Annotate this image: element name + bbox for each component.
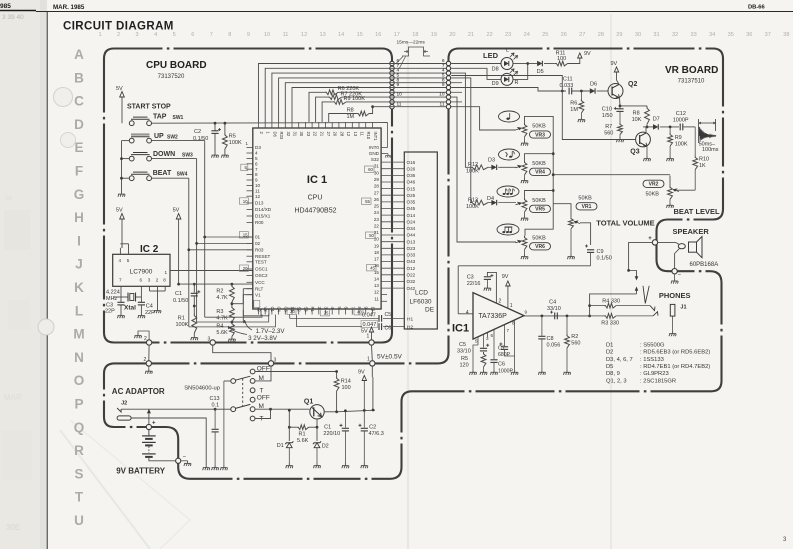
svg-text:D3: D3 bbox=[488, 158, 495, 164]
LCD LF6030 box bbox=[404, 152, 437, 329]
svg-text:28: 28 bbox=[339, 132, 344, 137]
wire R2-R3 junction to RLT pin bbox=[232, 303, 243, 305]
svg-text:45: 45 bbox=[370, 266, 375, 271]
svg-text:15: 15 bbox=[374, 270, 380, 275]
svg-text:5V: 5V bbox=[361, 329, 368, 335]
svg-text:BEAT: BEAT bbox=[153, 170, 172, 177]
resistor R9 100K bbox=[322, 102, 333, 122]
svg-text:50KB: 50KB bbox=[532, 161, 546, 167]
board interconnect rows 6 7 4 5 8 9 10 11 bbox=[395, 64, 446, 107]
svg-text:0.1/50: 0.1/50 bbox=[193, 136, 208, 142]
svg-text:VR6: VR6 bbox=[535, 244, 545, 250]
ground below pole 1 bbox=[220, 465, 227, 470]
ground below J1 bbox=[669, 331, 676, 336]
svg-text:0.1: 0.1 bbox=[212, 402, 220, 408]
svg-text:D8: D8 bbox=[492, 67, 499, 73]
ground at node 2 CPU side bbox=[138, 331, 149, 340]
svg-text:0.1/50: 0.1/50 bbox=[597, 256, 612, 262]
svg-text:100K: 100K bbox=[675, 141, 688, 147]
svg-text:: 2SC1815GR: : 2SC1815GR bbox=[640, 378, 676, 384]
wire VR1 wiper to C9 bbox=[580, 223, 591, 245]
svg-text:10: 10 bbox=[439, 92, 445, 98]
svg-text:O14: O14 bbox=[407, 213, 416, 218]
ground below R9 bbox=[667, 156, 674, 161]
svg-text:D1: D1 bbox=[277, 443, 284, 449]
svg-text:C1: C1 bbox=[270, 307, 275, 313]
audio bus chain verticals bbox=[525, 116, 554, 203]
IC1 left pin labels bbox=[255, 145, 272, 297]
ground below R1 bbox=[191, 335, 198, 340]
IC1 right pin 11 stub bbox=[381, 300, 387, 302]
svg-text:H1: H1 bbox=[407, 316, 413, 322]
svg-text:36: 36 bbox=[746, 32, 752, 38]
ground below VR1 bbox=[570, 229, 572, 254]
svg-text:1: 1 bbox=[165, 270, 168, 275]
svg-text:C4: C4 bbox=[549, 299, 556, 305]
capacitor C6 0.047 bbox=[361, 321, 378, 328]
svg-text:0.047: 0.047 bbox=[363, 322, 377, 328]
svg-text:13: 13 bbox=[374, 283, 380, 288]
svg-text:27: 27 bbox=[579, 32, 585, 38]
ground below R5 bbox=[221, 153, 228, 158]
svg-text:29: 29 bbox=[616, 32, 622, 38]
svg-text:D6: D6 bbox=[272, 132, 277, 138]
svg-text:100K: 100K bbox=[176, 322, 189, 328]
svg-text:100ms: 100ms bbox=[702, 147, 719, 153]
svg-text:V3: V3 bbox=[263, 307, 268, 313]
svg-text:21: 21 bbox=[319, 132, 324, 137]
svg-text:6: 6 bbox=[255, 161, 258, 166]
row 8 stub bbox=[451, 82, 462, 84]
svg-text:10: 10 bbox=[370, 307, 375, 312]
svg-text:5: 5 bbox=[127, 258, 130, 263]
svg-text:IC1: IC1 bbox=[452, 323, 469, 335]
ground below C3 bbox=[117, 313, 124, 318]
svg-text:10: 10 bbox=[243, 199, 248, 204]
svg-text:K: K bbox=[74, 280, 84, 295]
svg-text:O42: O42 bbox=[407, 286, 416, 291]
Q3 emitter to ground bbox=[646, 146, 648, 156]
burst waveform symbol 50ms-100ms bbox=[699, 122, 716, 124]
svg-text:O22: O22 bbox=[407, 273, 416, 278]
svg-text:21: 21 bbox=[468, 32, 474, 38]
svg-text:9V BATTERY: 9V BATTERY bbox=[116, 467, 166, 476]
ground below D1 bbox=[286, 463, 293, 468]
svg-text:J2: J2 bbox=[121, 401, 127, 407]
switch arm 1 bbox=[235, 376, 250, 380]
svg-text:47/6.3: 47/6.3 bbox=[369, 431, 384, 437]
svg-text:S3: S3 bbox=[303, 307, 308, 313]
VCC rail from 5V to IC1 bbox=[179, 283, 253, 285]
IC1 right pin 12 stub bbox=[381, 294, 387, 296]
paper crease right bbox=[610, 14, 612, 549]
svg-text:23: 23 bbox=[306, 132, 311, 137]
svg-text:V1: V1 bbox=[255, 292, 261, 297]
svg-text:R3: R3 bbox=[216, 309, 223, 315]
svg-text:9V: 9V bbox=[502, 274, 509, 280]
svg-text:27: 27 bbox=[326, 132, 331, 137]
svg-text:560: 560 bbox=[571, 341, 580, 347]
svg-text:60: 60 bbox=[368, 167, 373, 172]
svg-text:02: 02 bbox=[255, 241, 261, 246]
svg-text:11: 11 bbox=[283, 32, 289, 38]
svg-text:28: 28 bbox=[598, 32, 604, 38]
svg-text:31: 31 bbox=[293, 132, 298, 137]
IC1 bottom pin stubs and rotated labels bbox=[259, 309, 373, 315]
svg-text:12: 12 bbox=[301, 32, 307, 38]
svg-text:10: 10 bbox=[255, 183, 261, 188]
svg-text:S32: S32 bbox=[371, 157, 380, 162]
svg-text:C3: C3 bbox=[467, 275, 474, 281]
wire row 5 to R13 bbox=[451, 78, 472, 203]
svg-text:5V±0.5V: 5V±0.5V bbox=[377, 354, 403, 361]
speaker switch contact arms bbox=[629, 269, 637, 271]
svg-text:R7: R7 bbox=[605, 124, 612, 130]
ground below R6 vr bbox=[578, 117, 585, 122]
svg-text:R03: R03 bbox=[255, 247, 264, 252]
svg-text:20: 20 bbox=[290, 309, 295, 314]
svg-text:O16: O16 bbox=[407, 160, 416, 165]
svg-text:3 2V–3.8V: 3 2V–3.8V bbox=[248, 335, 278, 342]
ground below C2 bbox=[211, 153, 218, 158]
VR board and power board outline bbox=[104, 49, 723, 479]
svg-text:SW2: SW2 bbox=[167, 134, 178, 140]
svg-text:+: + bbox=[152, 421, 156, 427]
svg-text:3: 3 bbox=[136, 32, 139, 38]
pole 1 wire to ground bbox=[223, 381, 225, 465]
svg-text:35: 35 bbox=[728, 32, 734, 38]
power switch pole 2 bbox=[231, 407, 236, 412]
svg-text:220/10: 220/10 bbox=[323, 431, 340, 437]
svg-text:LF6030: LF6030 bbox=[410, 299, 432, 306]
svg-text:VR4: VR4 bbox=[535, 170, 545, 176]
svg-text:9V: 9V bbox=[584, 51, 591, 57]
svg-text:37: 37 bbox=[765, 32, 771, 38]
svg-text:D7: D7 bbox=[653, 117, 660, 123]
switch contact T 1 bbox=[250, 388, 255, 393]
svg-text:T: T bbox=[260, 387, 264, 394]
svg-text:100K: 100K bbox=[229, 140, 242, 146]
svg-text:14: 14 bbox=[374, 276, 380, 281]
wire R10 to VR2 wiper bbox=[677, 189, 695, 191]
svg-text:31: 31 bbox=[374, 164, 380, 169]
svg-text:33/10: 33/10 bbox=[457, 348, 471, 354]
paper crease left-center bbox=[407, 44, 409, 549]
wire R3-R4 junction to V1 loop bbox=[232, 321, 243, 323]
svg-text:560: 560 bbox=[604, 130, 613, 136]
svg-text:O44: O44 bbox=[407, 233, 416, 238]
svg-text:DOWN: DOWN bbox=[153, 151, 175, 158]
svg-text:R33: R33 bbox=[279, 132, 284, 140]
wire J2 sleeve to ground bbox=[131, 418, 206, 465]
svg-text:15: 15 bbox=[357, 32, 363, 38]
svg-text:AC ADAPTOR: AC ADAPTOR bbox=[112, 387, 165, 396]
svg-text:22: 22 bbox=[486, 32, 492, 38]
svg-text:LED: LED bbox=[483, 51, 499, 60]
svg-text:GND: GND bbox=[369, 151, 380, 156]
svg-text:P: P bbox=[74, 397, 83, 412]
svg-text:100: 100 bbox=[342, 385, 351, 391]
switch bus vertical SW4 bbox=[188, 178, 190, 327]
svg-text:2: 2 bbox=[156, 278, 159, 283]
svg-text:O46: O46 bbox=[407, 180, 416, 185]
svg-text:O35: O35 bbox=[407, 200, 416, 205]
svg-text:22P: 22P bbox=[105, 309, 115, 315]
svg-text:Q3: Q3 bbox=[630, 149, 639, 156]
svg-text:D1: D1 bbox=[606, 343, 613, 349]
ground for battery minus bbox=[181, 460, 188, 462]
svg-text:4: 4 bbox=[119, 258, 122, 263]
svg-text:SPEAKER: SPEAKER bbox=[673, 227, 710, 236]
svg-text:23: 23 bbox=[374, 217, 380, 222]
svg-text:L: L bbox=[75, 303, 83, 318]
svg-text:D5: D5 bbox=[537, 69, 544, 75]
svg-text:C4: C4 bbox=[277, 307, 282, 313]
svg-text:7: 7 bbox=[255, 167, 258, 172]
svg-text:O45: O45 bbox=[407, 206, 416, 211]
svg-text:C12: C12 bbox=[676, 111, 686, 117]
svg-text:R1: R1 bbox=[299, 432, 306, 438]
ground below C3 bbox=[484, 286, 491, 291]
svg-text:D6: D6 bbox=[590, 82, 597, 88]
svg-text:MAR. 1985: MAR. 1985 bbox=[53, 4, 85, 11]
svg-text:R8: R8 bbox=[633, 111, 640, 117]
svg-text:C8: C8 bbox=[547, 336, 554, 342]
resistor R1 5.6K horizontal bbox=[289, 426, 297, 428]
svg-text:R: R bbox=[515, 80, 519, 86]
svg-text:OFF: OFF bbox=[257, 395, 270, 402]
svg-text:25: 25 bbox=[324, 311, 329, 316]
svg-text:8: 8 bbox=[163, 278, 166, 283]
row 9 wire to C11 bbox=[451, 88, 566, 92]
punch hole 2 bbox=[61, 133, 76, 148]
ground below C8 bbox=[538, 370, 545, 375]
svg-text:VR3: VR3 bbox=[535, 132, 545, 138]
svg-text:25: 25 bbox=[374, 204, 380, 209]
svg-text:H2: H2 bbox=[407, 325, 413, 331]
svg-text:18: 18 bbox=[412, 32, 418, 38]
output riser to R4 and switch bbox=[588, 315, 591, 318]
svg-text:3: 3 bbox=[148, 278, 151, 283]
svg-text:Q1, 2, 3: Q1, 2, 3 bbox=[606, 378, 627, 384]
svg-text:T: T bbox=[75, 490, 84, 505]
svg-text:C1: C1 bbox=[175, 291, 182, 297]
ground below C1 power bbox=[342, 463, 349, 468]
svg-text:C5: C5 bbox=[385, 312, 392, 318]
ground below switches bbox=[118, 192, 125, 197]
svg-text:I: I bbox=[77, 233, 81, 248]
punch hole 1 bbox=[54, 88, 73, 107]
ground below C2 power bbox=[361, 463, 368, 468]
wire T2 to M2 bbox=[255, 409, 271, 418]
svg-text:C13: C13 bbox=[210, 396, 220, 402]
svg-text:−: − bbox=[183, 455, 187, 461]
svg-text:19: 19 bbox=[431, 32, 437, 38]
svg-text:OSC1: OSC1 bbox=[255, 267, 268, 272]
svg-text:: RD4.7EB1 (or RD4.7EB2): : RD4.7EB1 (or RD4.7EB2) bbox=[640, 364, 710, 370]
svg-text:H: H bbox=[74, 210, 84, 225]
resistor R5 120 amp bbox=[481, 352, 486, 367]
svg-text:R9: R9 bbox=[675, 135, 682, 141]
svg-text:RESET: RESET bbox=[255, 254, 271, 259]
svg-text:R3 330: R3 330 bbox=[601, 321, 619, 327]
svg-text:C10: C10 bbox=[602, 107, 612, 113]
wire row 11 to VR3 wiper bbox=[451, 107, 515, 130]
svg-text:O: O bbox=[74, 373, 85, 388]
svg-text:6: 6 bbox=[140, 278, 143, 283]
svg-text:0.056: 0.056 bbox=[547, 342, 561, 348]
svg-text:DE: DE bbox=[425, 307, 435, 314]
svg-text:33/10: 33/10 bbox=[547, 306, 561, 312]
svg-text:34: 34 bbox=[709, 32, 715, 38]
svg-text:D15/X1: D15/X1 bbox=[255, 214, 271, 219]
resistor R8 1M bbox=[329, 114, 357, 123]
ground below pin8 and C7 bbox=[511, 370, 518, 375]
svg-text:10: 10 bbox=[397, 92, 403, 98]
legend component table bbox=[606, 343, 710, 385]
svg-text:25: 25 bbox=[542, 32, 548, 38]
wire node1 to rail bbox=[371, 366, 373, 377]
battery minus wire and node bbox=[149, 457, 176, 461]
svg-text:C11: C11 bbox=[563, 77, 573, 83]
wire 0.047 caps from CPU pins bbox=[289, 315, 291, 319]
wire J2 tip to switch pole bbox=[121, 408, 215, 410]
svg-text:4: 4 bbox=[255, 151, 258, 156]
wire VR1 top to chain bbox=[553, 204, 571, 218]
svg-text:32: 32 bbox=[286, 132, 291, 137]
svg-text:1000P: 1000P bbox=[673, 117, 689, 123]
ground below R5 amp bbox=[480, 370, 487, 375]
svg-text:01: 01 bbox=[255, 235, 261, 240]
svg-text:R6: R6 bbox=[570, 101, 577, 107]
svg-text:D5: D5 bbox=[606, 364, 613, 370]
speaker symbol 60PB168A bbox=[658, 242, 679, 244]
svg-text:30: 30 bbox=[635, 32, 641, 38]
svg-text:D9: D9 bbox=[492, 81, 499, 87]
svg-text:SN504600-up: SN504600-up bbox=[184, 385, 220, 391]
svg-text:1: 1 bbox=[510, 303, 513, 309]
svg-text:CPU BOARD: CPU BOARD bbox=[146, 60, 207, 71]
svg-text:5: 5 bbox=[475, 339, 478, 344]
svg-text:29: 29 bbox=[374, 177, 380, 182]
svg-text:1K: 1K bbox=[699, 163, 706, 169]
svg-text:R10: R10 bbox=[366, 132, 371, 140]
svg-text:R2: R2 bbox=[571, 334, 578, 340]
ground below R2 bbox=[563, 370, 570, 375]
svg-text:D2: D2 bbox=[606, 350, 613, 356]
svg-text:8: 8 bbox=[255, 172, 258, 177]
wire UP to bus bbox=[152, 140, 205, 142]
bottom bus wires bbox=[205, 315, 262, 318]
svg-text:4: 4 bbox=[466, 310, 469, 316]
svg-text:C: C bbox=[74, 94, 84, 109]
note icon for VR4 bbox=[499, 149, 520, 160]
svg-text:F: F bbox=[75, 164, 83, 179]
svg-text:100K: 100K bbox=[466, 204, 479, 210]
svg-text:Q1: Q1 bbox=[304, 399, 313, 406]
note icon for VR6 bbox=[497, 224, 519, 235]
svg-text:D3: D3 bbox=[255, 145, 261, 150]
svg-text:4.7K: 4.7K bbox=[216, 295, 228, 301]
svg-text:50KB: 50KB bbox=[532, 236, 546, 242]
svg-text:M: M bbox=[73, 327, 84, 342]
svg-text:12: 12 bbox=[374, 290, 380, 295]
resistor R7 220K bbox=[316, 97, 328, 122]
svg-text:2: 2 bbox=[499, 298, 502, 304]
ground below C6 bbox=[490, 370, 497, 375]
svg-text:73137520: 73137520 bbox=[158, 74, 185, 80]
svg-text:C6: C6 bbox=[498, 362, 505, 368]
svg-text:1.7V–2.3V: 1.7V–2.3V bbox=[256, 328, 286, 335]
svg-text:TAP: TAP bbox=[153, 114, 167, 121]
wire M2 rail bbox=[255, 408, 310, 410]
svg-text:O23: O23 bbox=[407, 246, 416, 251]
svg-text:50KB: 50KB bbox=[646, 192, 660, 198]
svg-text:Q: Q bbox=[74, 420, 85, 435]
svg-text:C2: C2 bbox=[369, 425, 376, 431]
svg-text:: RD5.6EB3 (or RD5.6EB2): : RD5.6EB3 (or RD5.6EB2) bbox=[640, 350, 710, 356]
svg-text:J1: J1 bbox=[680, 305, 686, 311]
Q2 emitter wire bbox=[619, 98, 622, 106]
svg-text:−: − bbox=[678, 273, 682, 279]
svg-text:VR BOARD: VR BOARD bbox=[665, 65, 718, 76]
ground below VR3 bbox=[521, 141, 528, 146]
svg-text:24: 24 bbox=[524, 32, 530, 38]
svg-text:O33: O33 bbox=[407, 253, 416, 258]
svg-text:: 1SS133: : 1SS133 bbox=[640, 357, 664, 363]
svg-text:Xtal: Xtal bbox=[124, 305, 136, 312]
svg-text:O34: O34 bbox=[407, 226, 416, 231]
svg-text:11: 11 bbox=[360, 132, 365, 137]
svg-text:R5: R5 bbox=[229, 134, 236, 140]
svg-text:R1: R1 bbox=[178, 316, 185, 322]
node 3 jog wire bbox=[213, 345, 271, 361]
svg-text:C5: C5 bbox=[283, 307, 288, 313]
svg-text:9: 9 bbox=[442, 82, 445, 88]
svg-text:20: 20 bbox=[333, 132, 338, 137]
svg-text:U: U bbox=[74, 513, 84, 528]
switch bus vertical SW2 bbox=[204, 141, 206, 318]
svg-text:R1: R1 bbox=[310, 307, 315, 313]
svg-text:O26: O26 bbox=[407, 166, 416, 171]
wire C9 to amp input riser bbox=[458, 265, 590, 267]
resistor R5 100K bbox=[224, 123, 226, 133]
switch contact M 2 bbox=[250, 407, 255, 412]
svg-text:5: 5 bbox=[255, 156, 258, 161]
svg-text:VR2: VR2 bbox=[649, 182, 659, 188]
wire M1 to node 3 bbox=[255, 366, 271, 381]
wire row 10 to VR6 wiper feed bbox=[451, 97, 516, 242]
speaker node minus on border bbox=[672, 269, 677, 274]
pulse leader lines bbox=[397, 57, 404, 64]
right pin index boxes bbox=[365, 166, 375, 172]
svg-text:CPU: CPU bbox=[308, 195, 323, 202]
svg-text:O13: O13 bbox=[407, 239, 416, 244]
svg-text:7: 7 bbox=[210, 32, 213, 38]
svg-text:22: 22 bbox=[374, 223, 380, 228]
svg-text:R5: R5 bbox=[461, 356, 468, 362]
svg-text:R: R bbox=[74, 443, 84, 458]
svg-text:38: 38 bbox=[783, 32, 789, 38]
switch common wire to ground bbox=[122, 140, 130, 142]
svg-text:C2: C2 bbox=[194, 129, 201, 135]
phone plug symbol bbox=[643, 286, 649, 304]
svg-text:O32: O32 bbox=[407, 279, 416, 284]
ground below D2 bbox=[313, 463, 320, 468]
svg-text:RLT: RLT bbox=[255, 286, 264, 291]
svg-text:1M: 1M bbox=[347, 114, 355, 120]
svg-text:TA7336P: TA7336P bbox=[478, 313, 507, 320]
